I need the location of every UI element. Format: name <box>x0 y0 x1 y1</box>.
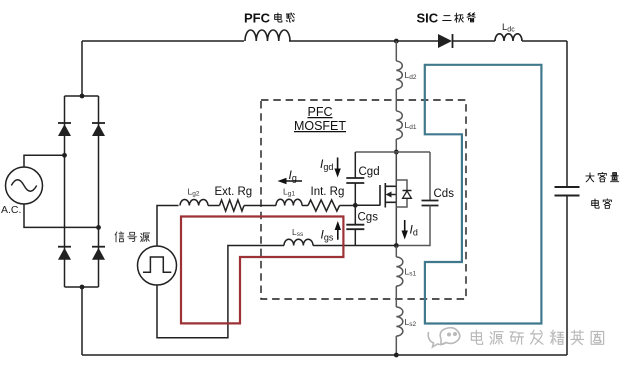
svg-text:Igs: Igs <box>321 228 334 243</box>
diode bridge lower-right <box>92 246 105 248</box>
node source node <box>394 243 399 248</box>
wire right rail <box>566 41 568 355</box>
wire Cds lower lead <box>396 206 430 246</box>
wire drain branch to drain node <box>395 139 397 152</box>
wire bridge bottom bar <box>65 286 99 288</box>
svg-text:Ld1: Ld1 <box>405 120 417 131</box>
wire AC bottom lead <box>24 204 99 227</box>
node AC-to-left-branch junction <box>62 153 67 158</box>
capacitor Cgs <box>346 225 364 230</box>
wire AC top lead <box>24 155 65 167</box>
svg-text:Lss: Lss <box>292 227 304 238</box>
wire bottom rail <box>82 354 567 356</box>
node gate node <box>353 203 358 208</box>
label 大容量 电容 <box>586 173 594 182</box>
signal source circle <box>138 246 177 285</box>
svg-text:Int. Rg: Int. Rg <box>311 186 345 198</box>
wire top rail <box>82 40 567 42</box>
node bridge top junction <box>80 94 85 99</box>
wire Cgd lower lead to gate node <box>354 183 356 205</box>
wire signal source to gate line <box>157 206 179 247</box>
inductor Lss common source parasitic <box>284 239 313 245</box>
wire left drop from top rail to bridge <box>81 41 83 96</box>
highlight blue power loop <box>425 65 542 324</box>
svg-text:Igd: Igd <box>320 157 333 172</box>
wire bridge bottom to bottom rail <box>81 287 83 355</box>
svg-text:PFC: PFC <box>308 105 333 119</box>
wire source return line <box>313 245 396 247</box>
capacitor Cgd <box>346 178 364 183</box>
inductor Ls2 source parasitic (outer) <box>396 307 403 336</box>
resistor Ext. Rg <box>220 200 245 211</box>
resistor Int. Rg <box>308 200 340 211</box>
highlight red gate-drive loop <box>181 217 343 324</box>
wire Cgs lower lead <box>354 229 356 245</box>
svg-text:Cgd: Cgd <box>359 166 380 178</box>
inductor Ls1 source parasitic (inner) <box>396 257 403 286</box>
arrow Igs <box>337 228 339 240</box>
wire drain node bar (Cgd top to Cds top) <box>355 151 430 153</box>
AC source circle <box>6 167 43 204</box>
wire drain-source vertical <box>395 152 397 246</box>
PFC MOSFET package dashed boundary <box>261 100 466 299</box>
svg-text:PFC: PFC <box>244 11 271 26</box>
diode MOSFET body diode <box>396 180 407 207</box>
capacitor bulk output <box>555 187 580 196</box>
wire return line to signal source <box>157 246 284 338</box>
transistor PFC MOSFET symbol <box>380 183 396 208</box>
inductor Ld1 drain parasitic (inner) <box>396 111 402 139</box>
svg-text:Ls2: Ls2 <box>405 317 417 328</box>
wire source branch middle <box>395 286 397 307</box>
node source-to-bottom-rail junction <box>394 353 399 358</box>
label 信号源 <box>115 232 124 242</box>
svg-text:Ls1: Ls1 <box>405 267 417 278</box>
signal source pulse symbol <box>143 257 171 272</box>
node top-rail drain junction <box>394 39 399 44</box>
svg-text:Ig: Ig <box>289 168 297 183</box>
svg-text:Lg1: Lg1 <box>283 187 295 198</box>
wire bridge right branch <box>98 96 100 287</box>
diode SiC boost diode <box>438 34 452 48</box>
svg-text:SIC: SIC <box>417 11 439 26</box>
watermark text 电源研发精英圈 <box>471 330 482 344</box>
wire Cgd upper lead <box>354 152 356 178</box>
svg-text:Ld2: Ld2 <box>405 70 417 81</box>
svg-text:Cgs: Cgs <box>358 212 379 224</box>
wire Cds upper lead <box>429 152 431 201</box>
wire Ext.Rg to Lg1 <box>244 205 276 207</box>
diode bridge lower-left <box>58 246 71 248</box>
svg-text:Ldc: Ldc <box>502 22 515 34</box>
svg-text:Lg2: Lg2 <box>188 187 200 198</box>
wire bridge top bar <box>65 95 99 97</box>
svg-text:Cds: Cds <box>434 188 455 200</box>
node drain top node <box>394 150 399 155</box>
wire Cgs upper lead <box>354 205 356 224</box>
node bridge bottom junction <box>80 285 85 290</box>
arrow Igd <box>337 158 339 172</box>
wire Int.Rg to gate node <box>340 205 356 207</box>
wire source branch to bottom rail <box>395 336 397 355</box>
svg-text:A.C.: A.C. <box>1 204 21 216</box>
wire drain branch middle <box>395 89 397 111</box>
wire gate lead <box>355 204 380 206</box>
inductor Lg2 gate lead parasitic (outer) <box>180 199 208 205</box>
svg-text:Id: Id <box>410 223 418 238</box>
wire source branch upper <box>395 246 397 258</box>
arrow Id (drain current) <box>404 220 406 233</box>
wire drain branch upper <box>395 41 397 61</box>
svg-text:MOSFET: MOSFET <box>294 119 346 133</box>
watermark logo <box>428 328 460 347</box>
wire bridge left branch <box>64 96 66 287</box>
inductor Lc output trace <box>495 34 522 41</box>
wire Lg2 to Ext.Rg <box>208 205 220 207</box>
inductor Lg1 gate lead parasitic (inner) <box>276 199 302 205</box>
svg-text:Ext. Rg: Ext. Rg <box>215 186 253 198</box>
arrow Ig (gate current) <box>283 180 302 182</box>
node AC-to-right-branch junction <box>96 225 101 230</box>
AC source sine wave <box>11 180 36 192</box>
inductor PFC boost choke <box>245 30 290 41</box>
diode bridge upper-right <box>92 122 105 124</box>
inductor Ld2 drain parasitic (outer) <box>396 61 402 89</box>
diode bridge upper-left <box>58 122 71 124</box>
wire Lg1 to Int.Rg <box>302 205 308 207</box>
capacitor Cds <box>422 201 439 206</box>
